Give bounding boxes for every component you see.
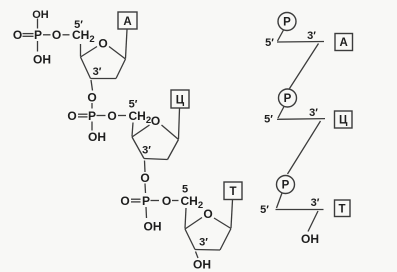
bond CH2 to C4' [185, 208, 186, 229]
svg-text:O: O [98, 36, 107, 50]
bond 3' end to P3 [288, 121, 321, 174]
backbone line 3 [276, 209, 324, 211]
svg-text:T: T [229, 186, 236, 198]
edge O-C1' [214, 218, 231, 229]
edge C2'-C3' [195, 249, 220, 252]
svg-text:3′: 3′ [93, 66, 102, 78]
bond CH2 to C4' [80, 44, 82, 57]
bond base T to C1' [231, 200, 233, 228]
bond O-CH2 [172, 200, 179, 202]
svg-text:Ц: Ц [339, 115, 348, 127]
bond P-O [43, 34, 51, 36]
phosphate circle P1 [278, 13, 296, 31]
svg-text:5′: 5′ [260, 204, 269, 216]
svg-text:3′: 3′ [311, 197, 320, 209]
edge C3'-C4' [81, 57, 91, 79]
svg-text:5: 5 [182, 184, 188, 196]
svg-text:OH: OH [88, 130, 106, 144]
svg-text:A: A [123, 16, 131, 28]
edge O-C1' [109, 47, 126, 60]
svg-text:A: A [340, 37, 348, 49]
edge O-C1' [162, 125, 179, 140]
bond C3' to O [91, 80, 93, 91]
base T box schematic [335, 200, 351, 217]
bond C3' to OH [196, 252, 199, 259]
svg-text:O: O [13, 28, 22, 42]
bond C3' to O [144, 161, 147, 173]
backbone line 1 [277, 41, 324, 44]
bond P-O [97, 115, 106, 117]
bond base A to C1' [126, 30, 128, 59]
svg-text:O: O [120, 194, 129, 208]
bond P to OH bottom [37, 41, 39, 52]
bond P to OH [145, 207, 148, 218]
base C box schematic [335, 111, 353, 128]
double bond O=P [23, 33, 34, 35]
svg-text:O: O [203, 207, 212, 221]
bond P1 to 5' end [278, 30, 284, 41]
bond P-O [151, 200, 160, 202]
bond O to P [144, 184, 147, 194]
bond 3' end to P2 [290, 44, 319, 89]
base C box [171, 90, 189, 108]
svg-text:P: P [34, 28, 42, 42]
bond O to P [91, 103, 93, 109]
bond P2 to 5' end [278, 107, 284, 119]
svg-text:5′: 5′ [265, 37, 274, 49]
edge C1'-C2' [220, 229, 231, 251]
svg-text:3′: 3′ [307, 30, 316, 42]
backbone line 2 [277, 118, 325, 121]
svg-text:O: O [52, 28, 61, 42]
svg-text:O: O [140, 171, 149, 185]
svg-text:3′: 3′ [142, 145, 151, 157]
edge C1'-C2' [168, 140, 179, 160]
svg-text:P: P [88, 109, 96, 123]
base A box schematic [335, 34, 353, 51]
bond O-CH2 [63, 34, 70, 36]
svg-text:P: P [283, 17, 291, 29]
svg-text:3′: 3′ [199, 237, 208, 249]
svg-text:O: O [151, 114, 160, 128]
svg-text:CH2: CH2 [181, 194, 204, 211]
bond P to OH [91, 122, 93, 131]
svg-text:5′: 5′ [74, 19, 83, 31]
bond OH to P [37, 19, 39, 29]
svg-text:O: O [107, 109, 116, 123]
svg-text:OH: OH [33, 52, 51, 66]
edge C4'-O [132, 125, 150, 137]
phosphate circle P2 [279, 89, 297, 107]
bond base C to C1' [179, 109, 180, 140]
bond O-CH2 [118, 115, 126, 117]
edge C2'-C3' [91, 78, 117, 80]
svg-text:O: O [162, 194, 171, 208]
bond 3' end to OH [308, 211, 318, 232]
base A box [118, 12, 137, 29]
svg-text:5′: 5′ [264, 114, 273, 126]
svg-text:O: O [67, 109, 76, 123]
edge C2'-C3' [144, 159, 168, 160]
svg-text:P: P [284, 93, 292, 105]
bond CH2 to C4' [132, 123, 133, 137]
edge C4'-O [185, 218, 202, 230]
svg-text:3′: 3′ [309, 107, 318, 119]
svg-text:Ц: Ц [176, 95, 185, 107]
phosphate circle P3 [277, 176, 295, 194]
edge C3'-C4' [185, 229, 195, 250]
svg-text:OH: OH [193, 257, 211, 271]
svg-text:P: P [142, 194, 150, 208]
svg-text:CH2: CH2 [129, 109, 152, 126]
svg-text:T: T [338, 204, 345, 216]
svg-text:OH: OH [32, 9, 49, 21]
base T box [224, 182, 242, 200]
svg-text:P: P [282, 180, 290, 192]
double bond O=P [131, 198, 141, 200]
svg-text:5′: 5′ [129, 99, 138, 111]
edge C4'-O [81, 47, 98, 58]
bond P3 to 5' end [277, 193, 283, 208]
svg-text:OH: OH [144, 219, 162, 233]
svg-text:O: O [87, 90, 96, 104]
svg-text:OH: OH [301, 232, 319, 246]
double bond O=P [78, 113, 88, 115]
edge C1'-C2' [116, 59, 126, 79]
edge C3'-C4' [132, 137, 144, 159]
